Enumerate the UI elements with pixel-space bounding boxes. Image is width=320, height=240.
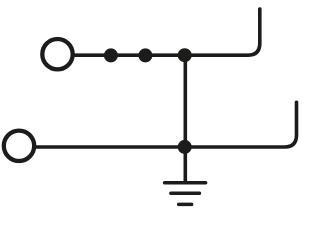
wire: top conductor from circle to upper-right bend	[74, 9, 260, 55]
terminal circle X1 (top-left)	[42, 39, 72, 69]
node: junction dot on top conductor	[178, 48, 192, 62]
wire: bottom conductor from circle to right-side bend	[36, 102, 296, 147]
terminal circle X2 (bottom-left)	[4, 131, 34, 161]
node: contact dot 1 on top conductor	[104, 48, 118, 62]
ground: bar 2 (middle)	[171, 191, 200, 195]
node: contact dot 2 on top conductor	[138, 48, 152, 62]
ground: bar 1 (widest)	[165, 181, 206, 185]
wire: vertical link from top conductor down to ground	[184, 55, 188, 181]
ground: bar 3 (shortest)	[179, 203, 192, 207]
node: junction dot on bottom conductor	[178, 140, 192, 154]
